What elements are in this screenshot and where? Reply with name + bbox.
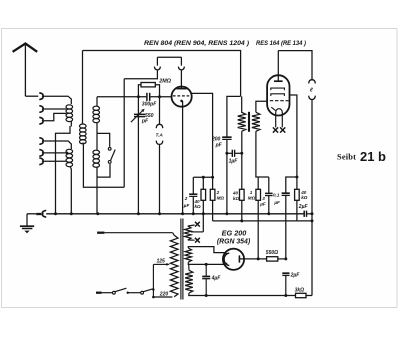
label 2M b (216, 190, 225, 201)
svg-text:MΩ: MΩ (217, 196, 225, 201)
junction 220 tap (152, 296, 155, 299)
wire branch to C200 (227, 96, 241, 137)
wire screen V2 to node (290, 95, 297, 177)
junction node R40a (202, 176, 214, 179)
junction grid-2M-TA (158, 95, 161, 98)
antenna (13, 44, 38, 97)
tube V1 envelope (172, 87, 192, 107)
wire W2 bottom rectifier filament line (188, 262, 227, 264)
anode V2 (274, 80, 283, 82)
grid capacitor C 300pF (147, 93, 150, 101)
transformer primary (170, 235, 178, 296)
wire L1 bottom to ground bus (56, 122, 72, 214)
tap 220V (153, 296, 172, 298)
junction L4b ground (96, 212, 99, 215)
wire grid line to L4a top (96, 97, 98, 106)
anode jack bar (157, 56, 181, 58)
wire filament V2 pins (276, 115, 283, 128)
wire varcap (137, 97, 139, 214)
jack T.A. upper (156, 124, 163, 128)
svg-text:220: 220 (159, 292, 169, 298)
junction TA ground (158, 212, 161, 215)
svg-text:µF: µF (259, 202, 266, 207)
tap 125V (153, 263, 170, 266)
svg-text:EG 200: EG 200 (222, 229, 247, 238)
winding W1 filament (185, 226, 191, 240)
junction R40a ground (202, 212, 205, 215)
wire left plug to L3 bottom (124, 70, 157, 187)
label 2uF output (298, 204, 309, 210)
label Seibt 21b (337, 150, 386, 164)
rectifier anode (238, 255, 240, 262)
svg-text:21 b: 21 b (360, 150, 386, 164)
junction L1 ground (54, 212, 57, 215)
svg-text:kΩ: kΩ (301, 195, 308, 200)
label 01uF (273, 193, 280, 206)
junction R40b bus2 (240, 219, 243, 222)
junction L2 ground (70, 212, 73, 215)
junction R1M anode (257, 257, 260, 260)
wire L3 bottom corner (83, 143, 124, 188)
wire hook3 to L1 tap (43, 113, 66, 120)
filament mark x1 W1 (195, 222, 200, 227)
wire anode V2 to jack (278, 51, 312, 80)
wire node to C2u (192, 177, 194, 194)
svg-text:ℓ: ℓ (310, 88, 313, 94)
resistor 3k (296, 293, 307, 297)
AF transformer core (248, 112, 250, 132)
wire W3 bottom to HT minus line (189, 293, 312, 296)
label 2MOhm (158, 78, 171, 84)
wire coupling node (193, 176, 212, 178)
winding W2 rectifier filament (185, 248, 191, 262)
wire R40b to bus2 (241, 200, 243, 221)
svg-text:µF: µF (183, 203, 190, 208)
svg-text:550Ω: 550Ω (266, 250, 278, 256)
label 2uF grid (183, 196, 190, 208)
wire anode V1 to coupling node (192, 93, 213, 177)
junction hook5-L2 (66, 152, 69, 155)
wire W1 top (188, 225, 195, 226)
junction AF pri C1u (240, 152, 243, 155)
grid V2 dashes (270, 100, 289, 102)
wire grid cap to tube (150, 96, 171, 98)
wire filter to HT minus (285, 276, 287, 296)
antenna terminal hook (39, 93, 43, 100)
label 200pF (211, 137, 223, 149)
label 220 (159, 292, 169, 298)
svg-text:2: 2 (216, 190, 220, 195)
svg-text:kΩ: kΩ (195, 204, 202, 209)
label 1uF (229, 158, 239, 164)
wire C2u to bus (192, 197, 194, 214)
rectifier envelope (223, 249, 244, 270)
wire rectifier anode out (239, 258, 266, 260)
label 550 (266, 250, 278, 256)
label 2uF filter (290, 272, 301, 278)
label jack L (310, 88, 313, 94)
junction grid-varcap (137, 95, 140, 98)
terminal hook 6 (39, 158, 43, 165)
wire hook2 to L1 (43, 108, 66, 110)
svg-text:(RGN 354): (RGN 354) (217, 239, 251, 246)
tube V2 envelope (267, 75, 289, 115)
feedback coil L3 (80, 124, 87, 144)
AF transformer secondary (252, 112, 260, 131)
bus2 HT minus (213, 220, 312, 222)
junction C3u ground (267, 212, 270, 215)
heater wire to transformer (104, 233, 174, 236)
filament V1 (180, 100, 183, 103)
anode V1 (176, 88, 186, 90)
svg-text:pF: pF (141, 119, 149, 125)
svg-text:T.A: T.A (156, 133, 164, 139)
filament mark x2 V2 (280, 127, 285, 132)
filament mark x2 W1 (195, 238, 200, 243)
junction cathode V1 ground (181, 212, 184, 215)
junction filter HT minus (284, 294, 287, 297)
label 40k b (232, 191, 240, 201)
terminal hook 3 (39, 117, 43, 124)
capacitor 3uF (265, 177, 273, 214)
svg-text:MΩ: MΩ (248, 196, 256, 201)
wire L4a to L4b with switch tap (97, 122, 110, 150)
wire junction down to bus (226, 153, 228, 214)
junction C200-C1u (225, 152, 228, 155)
capacitor 01uF (282, 193, 290, 195)
resistor 1M (256, 177, 261, 200)
antenna coil L2 (66, 149, 73, 166)
resistor 40k b (240, 153, 245, 200)
wire grid to TA jack (159, 97, 161, 124)
label 40k a (194, 199, 202, 209)
jack L lower (309, 96, 316, 100)
winding W3 HT (185, 270, 193, 293)
ground bus (46, 213, 303, 215)
svg-text:RES 164 (RE 134 ): RES 164 (RE 134 ) (256, 41, 306, 47)
wave switch S1 (108, 147, 115, 163)
svg-text:300pF: 300pF (142, 101, 157, 107)
svg-text:REN 804 (REN 904, RENS 1204 ): REN 804 (REN 904, RENS 1204 ) (144, 41, 249, 47)
terminal hook 2 (39, 106, 43, 113)
anode jack plug right (178, 57, 184, 70)
wire L4b bottom to bus and switch (97, 164, 110, 214)
label 1M (248, 190, 256, 201)
svg-text:0,1: 0,1 (273, 193, 280, 198)
wire hook6 to L2 tap (43, 160, 66, 162)
wire voltage selector (152, 264, 154, 297)
anode jack plug left (154, 57, 160, 70)
wire right plug to anode V1 (180, 70, 182, 88)
wire AF pri bottom to C1u node (241, 131, 243, 153)
junction filament line C4u (205, 263, 208, 266)
svg-text:3: 3 (262, 196, 265, 201)
wire R1M to rectifier (257, 200, 259, 259)
svg-text:µF: µF (273, 200, 280, 205)
svg-text:125: 125 (157, 258, 166, 264)
junction screen node (295, 176, 298, 179)
label 550pF (141, 113, 154, 125)
wire antenna to terminal (25, 95, 38, 97)
mains switch S2 (113, 288, 155, 294)
label T.A. (156, 133, 164, 139)
capacitor 2uF grid (189, 194, 197, 196)
grid V1 dashes (173, 95, 189, 97)
wire W1 center tap (191, 231, 204, 233)
wire W2 top to rectifier (188, 247, 227, 254)
label tube V1 (144, 41, 249, 47)
ground terminal hook (42, 210, 46, 217)
grid coil L4b (93, 150, 100, 167)
label rectifier (217, 229, 251, 246)
svg-text:1µF: 1µF (229, 158, 239, 164)
label 125 (157, 258, 166, 264)
jack L upper (309, 80, 316, 84)
label 300pF (142, 101, 157, 107)
wire L3 top to anode circuit (83, 51, 241, 97)
label 3uF (259, 196, 266, 207)
capacitor 2uF output (304, 211, 312, 217)
svg-text:4µF: 4µF (211, 276, 222, 282)
wire antenna terminal to coil L1 top (43, 96, 71, 104)
wire R40a to center tap (202, 200, 204, 232)
junction filter cap (284, 257, 287, 260)
resistor 2M b (210, 177, 215, 200)
svg-text:2µF: 2µF (290, 272, 301, 278)
wire 550 to filter (278, 258, 286, 260)
svg-text:1: 1 (250, 190, 253, 195)
label 40k c (300, 190, 308, 200)
junction output cap HT (311, 212, 314, 215)
rectifier filament (224, 253, 229, 265)
junction C2u ground (192, 212, 195, 215)
wire mains to switch (102, 292, 113, 294)
heater terminal (97, 232, 104, 234)
junction varcap ground (137, 212, 140, 215)
junction C200 ground (225, 212, 228, 215)
wire TA jack to bus (159, 145, 161, 214)
junction bus2 HT (311, 219, 314, 222)
wire W1 bottom (188, 239, 195, 241)
filament mark x1 V2 (273, 127, 278, 132)
wire hook4 to coil L2 top (43, 141, 71, 149)
transformer core (181, 219, 183, 300)
wire cathode V1 to bus (182, 101, 184, 214)
wire C200 to junction (226, 140, 228, 154)
terminal hook 4 (39, 138, 43, 145)
wire AF sec top to grid V2 (256, 101, 268, 112)
resistor 550 (267, 257, 278, 261)
antenna coil L1 (66, 105, 73, 122)
wire R2Mb to bus2 (212, 200, 214, 221)
resistor 40k c (295, 177, 300, 200)
wire R40c to bus2 (296, 200, 298, 221)
wire ground to terminal (27, 213, 42, 215)
wire jack to HT rail (311, 100, 313, 296)
capacitor 200pF (222, 137, 231, 139)
junction C4u HT minus (205, 294, 208, 297)
capacitor 4uF (202, 264, 210, 295)
variable capacitor 550pF (131, 109, 145, 123)
terminal hook 5 (39, 150, 43, 157)
svg-text:Seibt: Seibt (337, 153, 356, 162)
capacitor 2uF filter (282, 273, 289, 275)
svg-text:2µF: 2µF (298, 204, 309, 210)
wire C01 down to rectifier output (285, 196, 287, 259)
svg-text:2MΩ: 2MΩ (158, 78, 171, 84)
wire W3 top stub (188, 264, 190, 270)
resistor 40k a (201, 177, 206, 200)
svg-text:pF: pF (215, 143, 223, 149)
filament V2 (271, 107, 282, 115)
label 3k (295, 288, 305, 294)
svg-text:2: 2 (184, 196, 188, 201)
mains terminal (96, 292, 102, 294)
label 4uF (211, 276, 222, 282)
wire AF sec bottom to bias node (256, 131, 269, 177)
resistor 2M grid leak (138, 83, 159, 97)
svg-text:kΩ: kΩ (233, 196, 240, 201)
wire node to C01 (286, 177, 297, 193)
anode plates V2 (271, 88, 285, 96)
wire anode V2 top (277, 51, 279, 81)
svg-text:3kΩ: 3kΩ (295, 288, 305, 294)
svg-text:40: 40 (232, 191, 239, 196)
AF transformer primary (238, 96, 246, 131)
jack T.A. lower (156, 141, 163, 145)
wire L2 bottom to ground bus (70, 167, 71, 214)
grid wire from L4a to grid cap (97, 96, 146, 98)
ground symbol (20, 214, 34, 233)
wire top HT line to L3 (82, 51, 84, 125)
wire hook5 to L2 (43, 152, 66, 154)
capacitor 1uF (227, 150, 242, 157)
grid coil L4a (93, 106, 100, 122)
label tube V2 (256, 41, 306, 47)
